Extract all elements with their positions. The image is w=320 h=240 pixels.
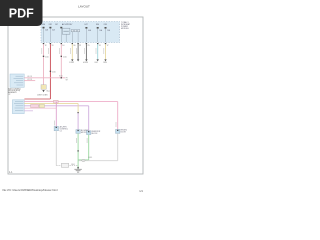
svg-text:L50 18: L50 18: [27, 76, 32, 78]
svg-text:17: 17: [107, 45, 109, 47]
svg-text:C2: C2: [8, 94, 10, 96]
svg-text:12: 12: [45, 45, 47, 47]
svg-text:F32: F32: [49, 24, 52, 26]
svg-text:B(+): B(+): [47, 90, 51, 92]
svg-text:HORN: HORN: [83, 62, 89, 64]
svg-text:MODULE: MODULE: [121, 28, 129, 30]
svg-text:L51 18: L51 18: [27, 79, 32, 81]
svg-text:G301: G301: [88, 157, 92, 159]
svg-text:DOOR: DOOR: [121, 132, 127, 134]
svg-text:22: 22: [79, 45, 81, 47]
svg-text:F93: F93: [104, 24, 107, 26]
svg-text:PK: PK: [66, 77, 69, 79]
svg-text:BLOCK: BLOCK: [92, 133, 99, 135]
svg-text:19: 19: [52, 45, 54, 47]
svg-text:PDF: PDF: [9, 6, 34, 20]
svg-text:C110: C110: [45, 56, 49, 58]
svg-text:LAYOUT: LAYOUT: [78, 5, 90, 9]
svg-text:14: 14: [62, 45, 64, 47]
svg-text:S110: S110: [59, 76, 63, 78]
svg-text:C110: C110: [52, 71, 56, 73]
svg-text:COMP: COMP: [69, 62, 75, 64]
svg-text:IGN: IGN: [95, 62, 99, 64]
svg-text:MODULE (BCM): MODULE (BCM): [8, 90, 20, 92]
svg-text:1/1: 1/1: [139, 189, 143, 193]
svg-text:file:///C:/Users/OWNER/Desktop: file:///C:/Users/OWNER/Desktop/blower.ht…: [3, 188, 58, 192]
svg-text:F47: F47: [85, 24, 88, 26]
svg-text:BODY CONTROL: BODY CONTROL: [8, 88, 21, 90]
svg-text:M7: M7: [55, 24, 57, 26]
svg-text:WT: WT: [66, 79, 69, 81]
svg-text:25: 25: [88, 45, 90, 47]
svg-text:S301: S301: [71, 164, 75, 166]
svg-text:C1: C1: [60, 131, 62, 133]
svg-text:C110: C110: [63, 56, 67, 58]
svg-text:31: 31: [99, 45, 101, 47]
svg-text:RUN: RUN: [103, 62, 107, 64]
svg-text:30: 30: [73, 45, 75, 47]
svg-text:JOINT CONN: JOINT CONN: [37, 94, 48, 96]
svg-text:F90: F90: [96, 24, 99, 26]
svg-text:F30: F30: [42, 24, 45, 26]
svg-text:A/C HTR RLY: A/C HTR RLY: [62, 23, 73, 26]
